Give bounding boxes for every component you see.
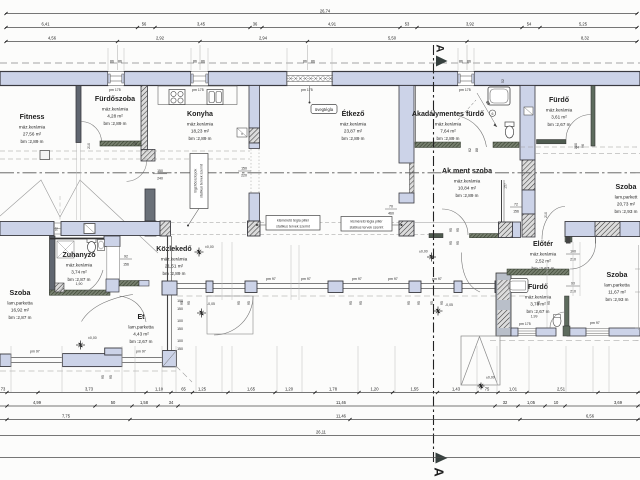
svg-text:bm :2,89 m: bm :2,89 m [189, 136, 212, 141]
shower tray [57, 241, 74, 258]
room Et [128, 313, 154, 344]
level star Szoba left + label [76, 341, 85, 350]
wall Furdo/Szoba right [591, 86, 595, 147]
svg-text:2,51: 2,51 [557, 386, 566, 391]
stove [169, 90, 185, 105]
door arc Furdo right [566, 115, 591, 140]
svg-text:4,91: 4,91 [328, 21, 337, 26]
extension lines near -0,05 [291, 245, 299, 300]
window openings in top wall [108, 72, 474, 86]
svg-text:Étkező: Étkező [342, 109, 366, 118]
svg-text:4,28 m²: 4,28 m² [107, 114, 123, 119]
corner post SE [163, 351, 177, 367]
window head dims 86/86 [110, 59, 471, 63]
Eloter room [530, 240, 557, 271]
pillar label box right [341, 217, 403, 232]
section arrow bottom [436, 453, 448, 464]
svg-text:statikus tervek szerint: statikus tervek szerint [200, 164, 204, 198]
level star porch center + label [427, 253, 436, 262]
Ak ment szoba south wall stub [429, 234, 443, 238]
svg-text:A: A [434, 45, 446, 53]
svg-text:86: 86 [311, 59, 315, 63]
kitchen counter [158, 86, 237, 105]
Kozlekedo west wall lines [168, 236, 172, 281]
room Furdoszoba [95, 95, 135, 126]
dim 72/156 right [510, 203, 522, 214]
svg-text:1,05: 1,05 [527, 400, 536, 405]
svg-text:16,92 m²: 16,92 m² [11, 308, 30, 313]
terrace pillar 2 [248, 221, 261, 236]
svg-text:Előtér: Előtér [533, 240, 553, 248]
porch east door arc [461, 253, 480, 293]
hatched pillar at Eloter [499, 222, 513, 238]
svg-text:10: 10 [554, 400, 559, 405]
svg-text:157: 157 [504, 183, 508, 189]
svg-text:Fürdő: Fürdő [549, 96, 570, 104]
svg-text:±0,00: ±0,00 [486, 376, 495, 380]
wall Furdoszoba/Konyha hatched [141, 86, 155, 162]
svg-text:95: 95 [349, 301, 353, 305]
svg-text:máz.kerámia: máz.kerámia [187, 122, 214, 127]
svg-text:23,87 m²: 23,87 m² [344, 129, 363, 134]
svg-text:máz.kerámia: máz.kerámia [66, 263, 93, 268]
svg-text:156: 156 [123, 263, 129, 267]
svg-text:95: 95 [456, 241, 460, 245]
svg-text:máz.kerámia: máz.kerámia [435, 122, 462, 127]
svg-text:73: 73 [1, 386, 6, 391]
svg-text:x: x [241, 132, 243, 136]
svg-text:7,75: 7,75 [62, 413, 71, 418]
svg-text:1,01: 1,01 [509, 386, 518, 391]
svg-text:8,32: 8,32 [581, 35, 590, 40]
svg-text:95: 95 [456, 228, 460, 232]
svg-text:1,25: 1,25 [198, 386, 207, 391]
svg-text:klsméretű tégla pillér: klsméretű tégla pillér [350, 220, 383, 224]
door arc Szoba right from Eloter [542, 207, 565, 240]
svg-text:53: 53 [405, 21, 410, 26]
svg-text:6: 6 [492, 112, 494, 116]
rotated 95 dims at Ak ment door [449, 228, 460, 245]
svg-text:62: 62 [468, 148, 472, 152]
svg-text:36: 36 [253, 21, 258, 26]
bottom railing left [0, 358, 176, 363]
svg-text:pm 97: pm 97 [266, 277, 276, 281]
Zuhanyzo sink [98, 240, 105, 251]
svg-text:bm :2,93 m: bm :2,93 m [606, 297, 629, 302]
door arc Furdoszoba [82, 122, 102, 143]
svg-text:1,99: 1,99 [531, 315, 538, 319]
svg-text:pm 97: pm 97 [352, 277, 362, 281]
level star left porch [197, 309, 206, 318]
glass block strip uvegtegla [287, 72, 333, 86]
svg-text:pm 97: pm 97 [136, 350, 146, 354]
level star Kozlekedo [195, 248, 204, 257]
svg-text:95: 95 [359, 301, 363, 305]
wall segment Konyha/Kozlekedo lower [145, 189, 156, 236]
level star gable [478, 383, 485, 390]
svg-text:pm 175: pm 175 [109, 88, 121, 92]
overall dimension line 26,74 [4, 9, 638, 16]
svg-text:1,58: 1,58 [140, 400, 149, 405]
level star -0,05 + label [434, 307, 443, 316]
svg-text:11,46: 11,46 [336, 413, 347, 418]
svg-text:máz.kerámia: máz.kerámia [454, 179, 481, 184]
Zuhanyzo toilet [87, 239, 96, 253]
eaves dashed lines left [0, 151, 250, 159]
bottom dimension row 1 [0, 386, 640, 394]
room Zuhanyzo [62, 251, 96, 282]
Zuhanyzo corner piece [55, 283, 64, 292]
room Szoba left [7, 289, 33, 320]
svg-text:1,90: 1,90 [76, 282, 83, 286]
door arc Konyha to Kozlekedo [127, 162, 147, 182]
porch railing lines [177, 284, 520, 289]
Fitness south wall [0, 222, 160, 236]
wall Fitness/Furdoszoba [76, 86, 81, 143]
svg-text:150: 150 [177, 307, 183, 311]
svg-text:26,11: 26,11 [316, 429, 327, 434]
svg-text:bm :2,89 m: bm :2,89 m [437, 136, 460, 141]
svg-text:1,20: 1,20 [285, 386, 294, 391]
corner block Kozlekedo SW [162, 281, 177, 354]
svg-text:11,46: 11,46 [336, 400, 347, 405]
pillar label box left [256, 216, 320, 231]
door arc Ak ment szoba [442, 209, 468, 235]
svg-text:95: 95 [449, 241, 453, 245]
door arc Szoba left [82, 295, 134, 322]
bottom wall right section [511, 328, 640, 336]
svg-text:3,61 m²: 3,61 m² [551, 115, 567, 120]
dim 250/96 right [574, 143, 585, 149]
column box with x on south wall [84, 224, 95, 234]
svg-text:Fürdőszoba: Fürdőszoba [95, 95, 135, 103]
room Fitness [19, 113, 46, 144]
dark stub in bottom wall [563, 326, 570, 336]
door arc Furdo bottom [550, 312, 565, 328]
terrace door arc Kozlekedo [214, 296, 253, 335]
wall Etkezo/Akadalymentes [399, 86, 414, 204]
svg-text:bm :2,87 m: bm :2,87 m [9, 315, 32, 320]
railing post far left [0, 354, 11, 367]
room Konyha [187, 110, 214, 141]
svg-text:240: 240 [157, 176, 163, 180]
svg-text:26,74: 26,74 [320, 9, 331, 14]
svg-text:92: 92 [55, 227, 59, 231]
room Szoba top right [615, 183, 639, 214]
terrace pillar 1 [160, 221, 171, 236]
svg-text:1,65: 1,65 [247, 386, 256, 391]
Zuhanyzo door arc [84, 270, 103, 293]
blue piece east of pillar [513, 222, 521, 238]
pm 175 window sill labels [109, 88, 471, 92]
terrace step outline [207, 296, 253, 334]
svg-text:95: 95 [417, 301, 421, 305]
svg-text:pm 175: pm 175 [192, 88, 204, 92]
dimension line row 2 [4, 21, 638, 29]
room Szoba bottom right [604, 271, 630, 302]
svg-text:Fürdő: Fürdő [528, 283, 549, 291]
svg-text:Zuhanyzó: Zuhanyzó [62, 251, 96, 259]
svg-text:150: 150 [177, 347, 183, 351]
extension line x547 [546, 263, 548, 330]
svg-text:máz.kerámia: máz.kerámia [161, 257, 188, 262]
Szoba top-right south wall [565, 222, 640, 243]
glass wall dashes between pillars [171, 223, 430, 235]
top exterior wall segments [0, 72, 640, 86]
svg-text:86: 86 [118, 59, 122, 63]
svg-text:bm :2,67 m: bm :2,67 m [130, 339, 153, 344]
svg-text:70: 70 [389, 205, 393, 209]
extension lines below Fitness wall [77, 143, 81, 220]
svg-text:86: 86 [193, 59, 197, 63]
svg-text:Ak ment szoba: Ak ment szoba [442, 167, 492, 175]
svg-text:Fitness: Fitness [20, 113, 45, 121]
svg-text:86: 86 [459, 59, 463, 63]
svg-text:100: 100 [177, 339, 183, 343]
svg-text:32: 32 [503, 400, 508, 405]
svg-text:100: 100 [177, 299, 183, 303]
svg-text:bm :2,89 m: bm :2,89 m [21, 139, 44, 144]
Furdo bottom toilet [553, 315, 561, 327]
bathtub Furdo bottom [508, 279, 528, 293]
room Akadalymentes furdo [412, 110, 485, 141]
dashed line below bottom railing [0, 366, 192, 382]
gable triangle [461, 336, 500, 385]
svg-text:máz.kerámia: máz.kerámia [340, 122, 367, 127]
svg-text:210: 210 [544, 212, 548, 218]
pm 97 labels bottom [30, 350, 146, 354]
svg-text:95: 95 [407, 301, 411, 305]
svg-text:klsméretű tégla pillér: klsméretű tégla pillér [277, 219, 310, 223]
Furdo east wall dark [565, 296, 570, 326]
svg-text:pm 97: pm 97 [30, 350, 40, 354]
svg-text:1,78: 1,78 [329, 386, 338, 391]
svg-text:pm 97: pm 97 [301, 277, 311, 281]
svg-text:lam.parketta: lam.parketta [7, 301, 33, 306]
bathtub Ak furdo [488, 87, 510, 105]
svg-text:210: 210 [87, 143, 91, 149]
door arc Et [120, 296, 147, 322]
svg-text:pm 175: pm 175 [459, 88, 471, 92]
svg-text:5,25: 5,25 [579, 21, 588, 26]
svg-text:1,55: 1,55 [411, 386, 420, 391]
svg-text:±0,00: ±0,00 [88, 336, 97, 340]
svg-text:bm :2,89 m: bm :2,89 m [342, 136, 365, 141]
shaft box [524, 107, 533, 115]
svg-text:statikus tervek szerint: statikus tervek szerint [350, 226, 384, 230]
svg-text:lam.parketta: lam.parketta [128, 325, 154, 330]
Et south wall chunk [63, 348, 123, 367]
svg-text:156: 156 [513, 210, 519, 214]
Et west wall blue piece [106, 279, 119, 292]
svg-text:máz.kerámia: máz.kerámia [102, 107, 129, 112]
tiny dims under railing [101, 375, 113, 379]
accessible bathroom circle 6 [489, 110, 495, 116]
dim 70/460 [385, 205, 397, 216]
door arc Ak furdo [459, 116, 487, 147]
Furdoszoba bottom wall dark [100, 141, 141, 146]
svg-text:3,92: 3,92 [466, 21, 475, 26]
japan akac column label (vertical) [187, 154, 208, 227]
svg-text:56: 56 [142, 21, 147, 26]
center dash-dot line [0, 172, 640, 174]
pm labels bottom right [519, 321, 600, 326]
svg-text:3,69: 3,69 [614, 400, 623, 405]
room Kozlekedo [156, 245, 192, 276]
svg-text:máz.kerámia: máz.kerámia [19, 125, 46, 130]
bottom dimension row 4 [0, 429, 640, 435]
svg-text:250: 250 [574, 143, 578, 149]
pillar shaft above terrace pillar 2 [249, 193, 260, 221]
svg-text:10,84 m²: 10,84 m² [458, 186, 477, 191]
svg-text:95: 95 [101, 375, 105, 379]
svg-text:máz.kerámia: máz.kerámia [530, 252, 557, 257]
Eloter/Szoba divider door jamb [566, 237, 571, 244]
Ak ment szoba south wall east [470, 234, 499, 238]
room Furdo top right [546, 96, 573, 127]
svg-text:máz.kerámia: máz.kerámia [525, 295, 552, 300]
svg-text:1,43: 1,43 [452, 386, 461, 391]
svg-text:3,73: 3,73 [85, 386, 94, 391]
section arrow top [436, 56, 448, 67]
svg-text:±0,00: ±0,00 [205, 245, 214, 249]
dimension line row 3 [4, 35, 638, 43]
svg-text:150: 150 [157, 169, 163, 173]
svg-text:54: 54 [527, 21, 532, 26]
svg-text:Szoba: Szoba [10, 289, 31, 297]
terrace pillar 3 [399, 221, 414, 236]
uvegtegla label box [311, 105, 337, 114]
svg-text:86: 86 [110, 59, 114, 63]
svg-text:86: 86 [303, 59, 307, 63]
svg-text:72: 72 [514, 203, 518, 207]
svg-text:-0,05: -0,05 [445, 303, 453, 307]
door arc Szoba bottom right [570, 237, 596, 270]
svg-text:65: 65 [181, 386, 186, 391]
svg-text:52: 52 [501, 79, 505, 83]
svg-text:220: 220 [241, 174, 247, 178]
svg-text:4,43 m²: 4,43 m² [133, 332, 149, 337]
dashed line below bottom wall right [490, 340, 640, 342]
svg-text:86: 86 [201, 59, 205, 63]
svg-text:1,10: 1,10 [155, 386, 164, 391]
Zuhanyzo walls [50, 236, 111, 295]
svg-text:bm :2,67 m: bm :2,67 m [527, 309, 550, 314]
sink [207, 90, 223, 105]
svg-text:1,20: 1,20 [371, 386, 380, 391]
svg-text:bm :2,89 m: bm :2,89 m [456, 193, 479, 198]
corridor north line [414, 222, 498, 224]
Furdo bottom west thick wall [496, 273, 511, 336]
svg-text:Konyha: Konyha [187, 110, 213, 118]
dim 92/156 zuhanyzo door [120, 255, 132, 267]
svg-text:75: 75 [485, 386, 490, 391]
svg-text:88: 88 [475, 148, 479, 152]
room Furdo bottom [525, 283, 552, 314]
svg-text:96: 96 [581, 144, 585, 148]
svg-text:bm :2,93 m: bm :2,93 m [615, 209, 638, 214]
svg-text:95: 95 [449, 228, 453, 232]
svg-text:Közlekedő: Közlekedő [156, 245, 192, 253]
leader line to uvegtegla label [309, 86, 311, 103]
svg-text:95: 95 [237, 301, 241, 305]
svg-text:150: 150 [241, 167, 247, 171]
small box with x Konyha [237, 128, 247, 137]
svg-text:150: 150 [177, 327, 183, 331]
svg-text:6,41: 6,41 [42, 21, 51, 26]
extension lines to bottom dims [11, 48, 609, 392]
dim chain 100/150 left [177, 299, 183, 351]
svg-text:95: 95 [547, 301, 551, 305]
svg-text:2,94: 2,94 [259, 35, 268, 40]
svg-text:75: 75 [133, 142, 137, 146]
svg-text:34: 34 [169, 400, 174, 405]
svg-text:50: 50 [111, 400, 116, 405]
svg-text:95: 95 [109, 375, 113, 379]
svg-text:±0,00: ±0,00 [419, 250, 428, 254]
svg-text:460: 460 [388, 212, 394, 216]
pm 97 labels porch [266, 277, 442, 281]
svg-text:86: 86 [467, 59, 471, 63]
svg-text:pm 175: pm 175 [519, 322, 531, 326]
Zuhanyzo east wall stub [104, 236, 120, 280]
svg-text:Szoba: Szoba [616, 183, 637, 191]
svg-text:bm :2,89 m: bm :2,89 m [104, 121, 127, 126]
svg-text:4,99: 4,99 [33, 400, 42, 405]
svg-text:2,52 m²: 2,52 m² [535, 259, 551, 264]
dim 150/240 [153, 169, 167, 180]
dim 62/88 [468, 148, 479, 152]
dim 150/220 [238, 167, 251, 178]
extension lines from windows to dimension lines [118, 45, 468, 70]
svg-text:máz.kerámia: máz.kerámia [546, 108, 573, 113]
right edge dim chain [635, 245, 640, 330]
inner wall line Ak ment left [415, 86, 417, 142]
rotated 95 dims below porch [180, 301, 551, 305]
bottom dimension row 2 [0, 400, 640, 408]
dim 100/210 Eloter [566, 250, 580, 262]
svg-text:6,56: 6,56 [586, 413, 595, 418]
toilet Ak furdo [505, 122, 514, 138]
svg-text:bm :2,89 m: bm :2,89 m [163, 271, 186, 276]
dim 90/210 Szoba right door [566, 282, 580, 294]
svg-text:95: 95 [187, 301, 191, 305]
svg-text:2,92: 2,92 [156, 35, 165, 40]
wheelchair turning arrow [458, 93, 497, 127]
bottom dimension row 3 [0, 413, 640, 421]
svg-text:pm 97: pm 97 [590, 321, 600, 325]
valley dashed vertical [59, 196, 61, 221]
svg-text:üvegtégla: üvegtégla [315, 107, 334, 112]
bottom frame line [0, 457, 640, 459]
svg-text:A: A [432, 467, 447, 477]
Ak furdo / Ak ment szoba wall with door [415, 142, 519, 148]
svg-text:lam.parkett: lam.parkett [615, 195, 638, 200]
porch posts [206, 281, 511, 293]
Eloter/Furdo dividing wall hatched [507, 269, 569, 275]
svg-text:4,56: 4,56 [48, 35, 57, 40]
svg-text:pm 97: pm 97 [388, 277, 398, 281]
Et room top wall [109, 281, 149, 287]
room Ak ment szoba [442, 167, 492, 198]
svg-text:Akadálymentes fürdő: Akadálymentes fürdő [412, 110, 485, 118]
svg-text:3,78 m²: 3,78 m² [530, 302, 546, 307]
level marker Kozlekedo [205, 245, 214, 249]
svg-text:5,50: 5,50 [388, 35, 397, 40]
svg-text:27,56 m²: 27,56 m² [23, 132, 42, 137]
wall Ak furdo / Furdo right [520, 86, 535, 238]
thin wall below Elotere x501 [502, 180, 505, 222]
